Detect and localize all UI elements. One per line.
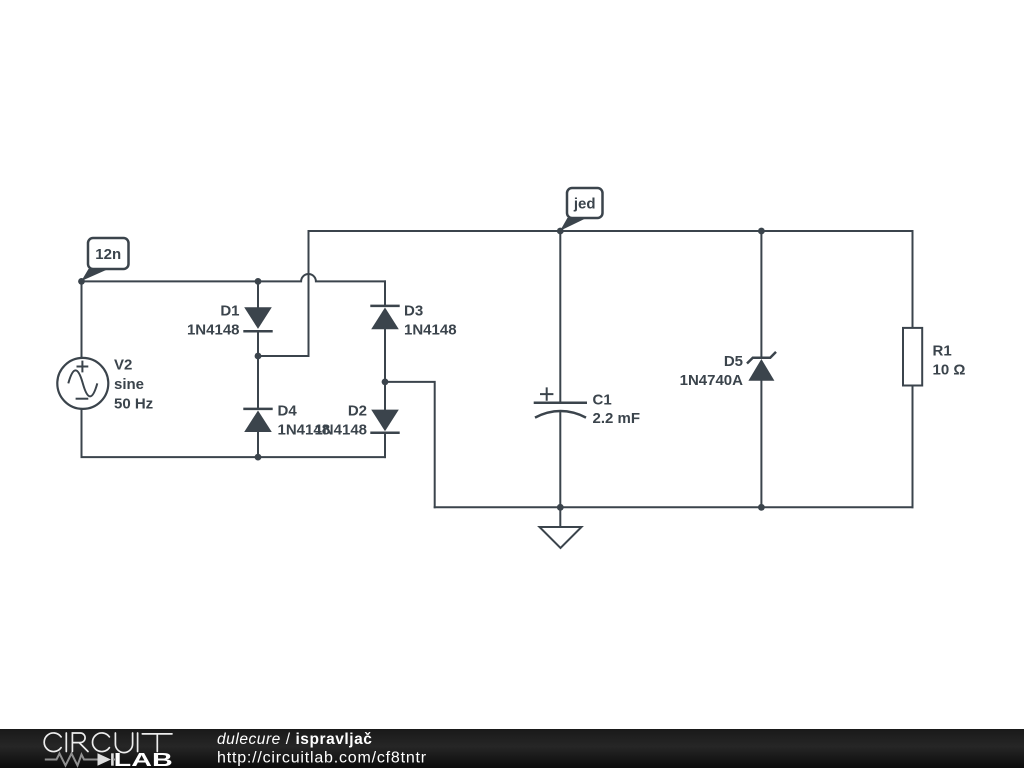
svg-text:C1: C1: [593, 391, 612, 408]
junction D1-D4 midpoint: [255, 353, 262, 360]
wire C1 bottom: [559, 412, 561, 508]
svg-text:10 Ω: 10 Ω: [933, 362, 966, 379]
ground: [540, 507, 582, 548]
node label 12n: [81, 238, 128, 281]
svg-text:D4: D4: [278, 403, 298, 420]
wire D3 top: [384, 281, 386, 305]
wire C1 top: [559, 231, 561, 402]
wire bottom right rail: [435, 506, 913, 508]
junction node jed at C1 top: [557, 228, 564, 235]
voltage source V2: [57, 358, 108, 409]
wire D5 bottom: [760, 381, 762, 507]
junction D5 anode on ground rail: [758, 504, 765, 511]
svg-text:LAB: LAB: [114, 750, 173, 768]
wire bridge cross: [258, 355, 309, 357]
wire top rail: [309, 230, 913, 232]
diode D2: [370, 410, 399, 433]
svg-text:2.2 mF: 2.2 mF: [593, 410, 641, 427]
svg-text:12n: 12n: [95, 246, 121, 263]
svg-text:50 Hz: 50 Hz: [114, 396, 153, 413]
svg-text:1N4148: 1N4148: [404, 322, 457, 339]
labels: [114, 303, 965, 439]
svg-text:jed: jed: [573, 196, 596, 213]
wire D2 bottom: [384, 433, 386, 457]
svg-text:V2: V2: [114, 357, 132, 374]
wire V2 bottom and bottom left rail: [82, 409, 386, 457]
wire mid drop from D2/D3 node: [385, 382, 435, 507]
wire D4 bottom: [257, 432, 259, 457]
diode D3: [370, 306, 399, 329]
resistor R1: [903, 328, 922, 386]
junction D4 anode on bottom rail: [255, 454, 262, 461]
junction D5 cathode on jed net: [758, 228, 765, 235]
wire D3 to node: [384, 330, 386, 382]
junction D3-D2 midpoint: [382, 379, 389, 386]
svg-text:D1: D1: [220, 303, 239, 320]
wire D1 to mid node: [257, 332, 259, 356]
junction C1 bottom / ground: [557, 504, 564, 511]
svg-text:dulecure / ispravljač: dulecure / ispravljač: [217, 731, 372, 748]
wire left drop from top rail: [308, 231, 310, 356]
wire D1 branch: [257, 281, 259, 306]
node label jed: [560, 188, 602, 231]
svg-text:1N4148: 1N4148: [187, 322, 240, 339]
svg-text:D5: D5: [724, 353, 743, 370]
zener diode D5: [747, 352, 776, 381]
capacitor C1: [534, 387, 587, 417]
svg-text:sine: sine: [114, 376, 144, 393]
footer bar: [0, 729, 1024, 768]
logo resistor-diode squiggle: [45, 753, 115, 765]
wire 12n horizontal with hop: [82, 274, 386, 281]
diode D1: [243, 307, 272, 331]
svg-text:R1: R1: [933, 343, 952, 360]
junction D1 anode on 12n net: [255, 278, 262, 285]
diode D4: [243, 409, 272, 432]
svg-text:D2: D2: [348, 403, 367, 420]
svg-text:1N4740A: 1N4740A: [680, 372, 744, 389]
svg-text:1N4148: 1N4148: [314, 422, 367, 439]
wire V2 top: [81, 281, 83, 358]
junction node 12n at V2 top: [78, 278, 85, 285]
wire D4 branch: [257, 356, 259, 408]
svg-text:D3: D3: [404, 303, 423, 320]
wire D5 top: [760, 231, 762, 358]
svg-text:http://circuitlab.com/cf8tntr: http://circuitlab.com/cf8tntr: [217, 750, 427, 767]
wire D2 top: [384, 382, 386, 409]
logo CIRCUIT lineart: [44, 733, 172, 753]
wire right side: [912, 231, 914, 507]
